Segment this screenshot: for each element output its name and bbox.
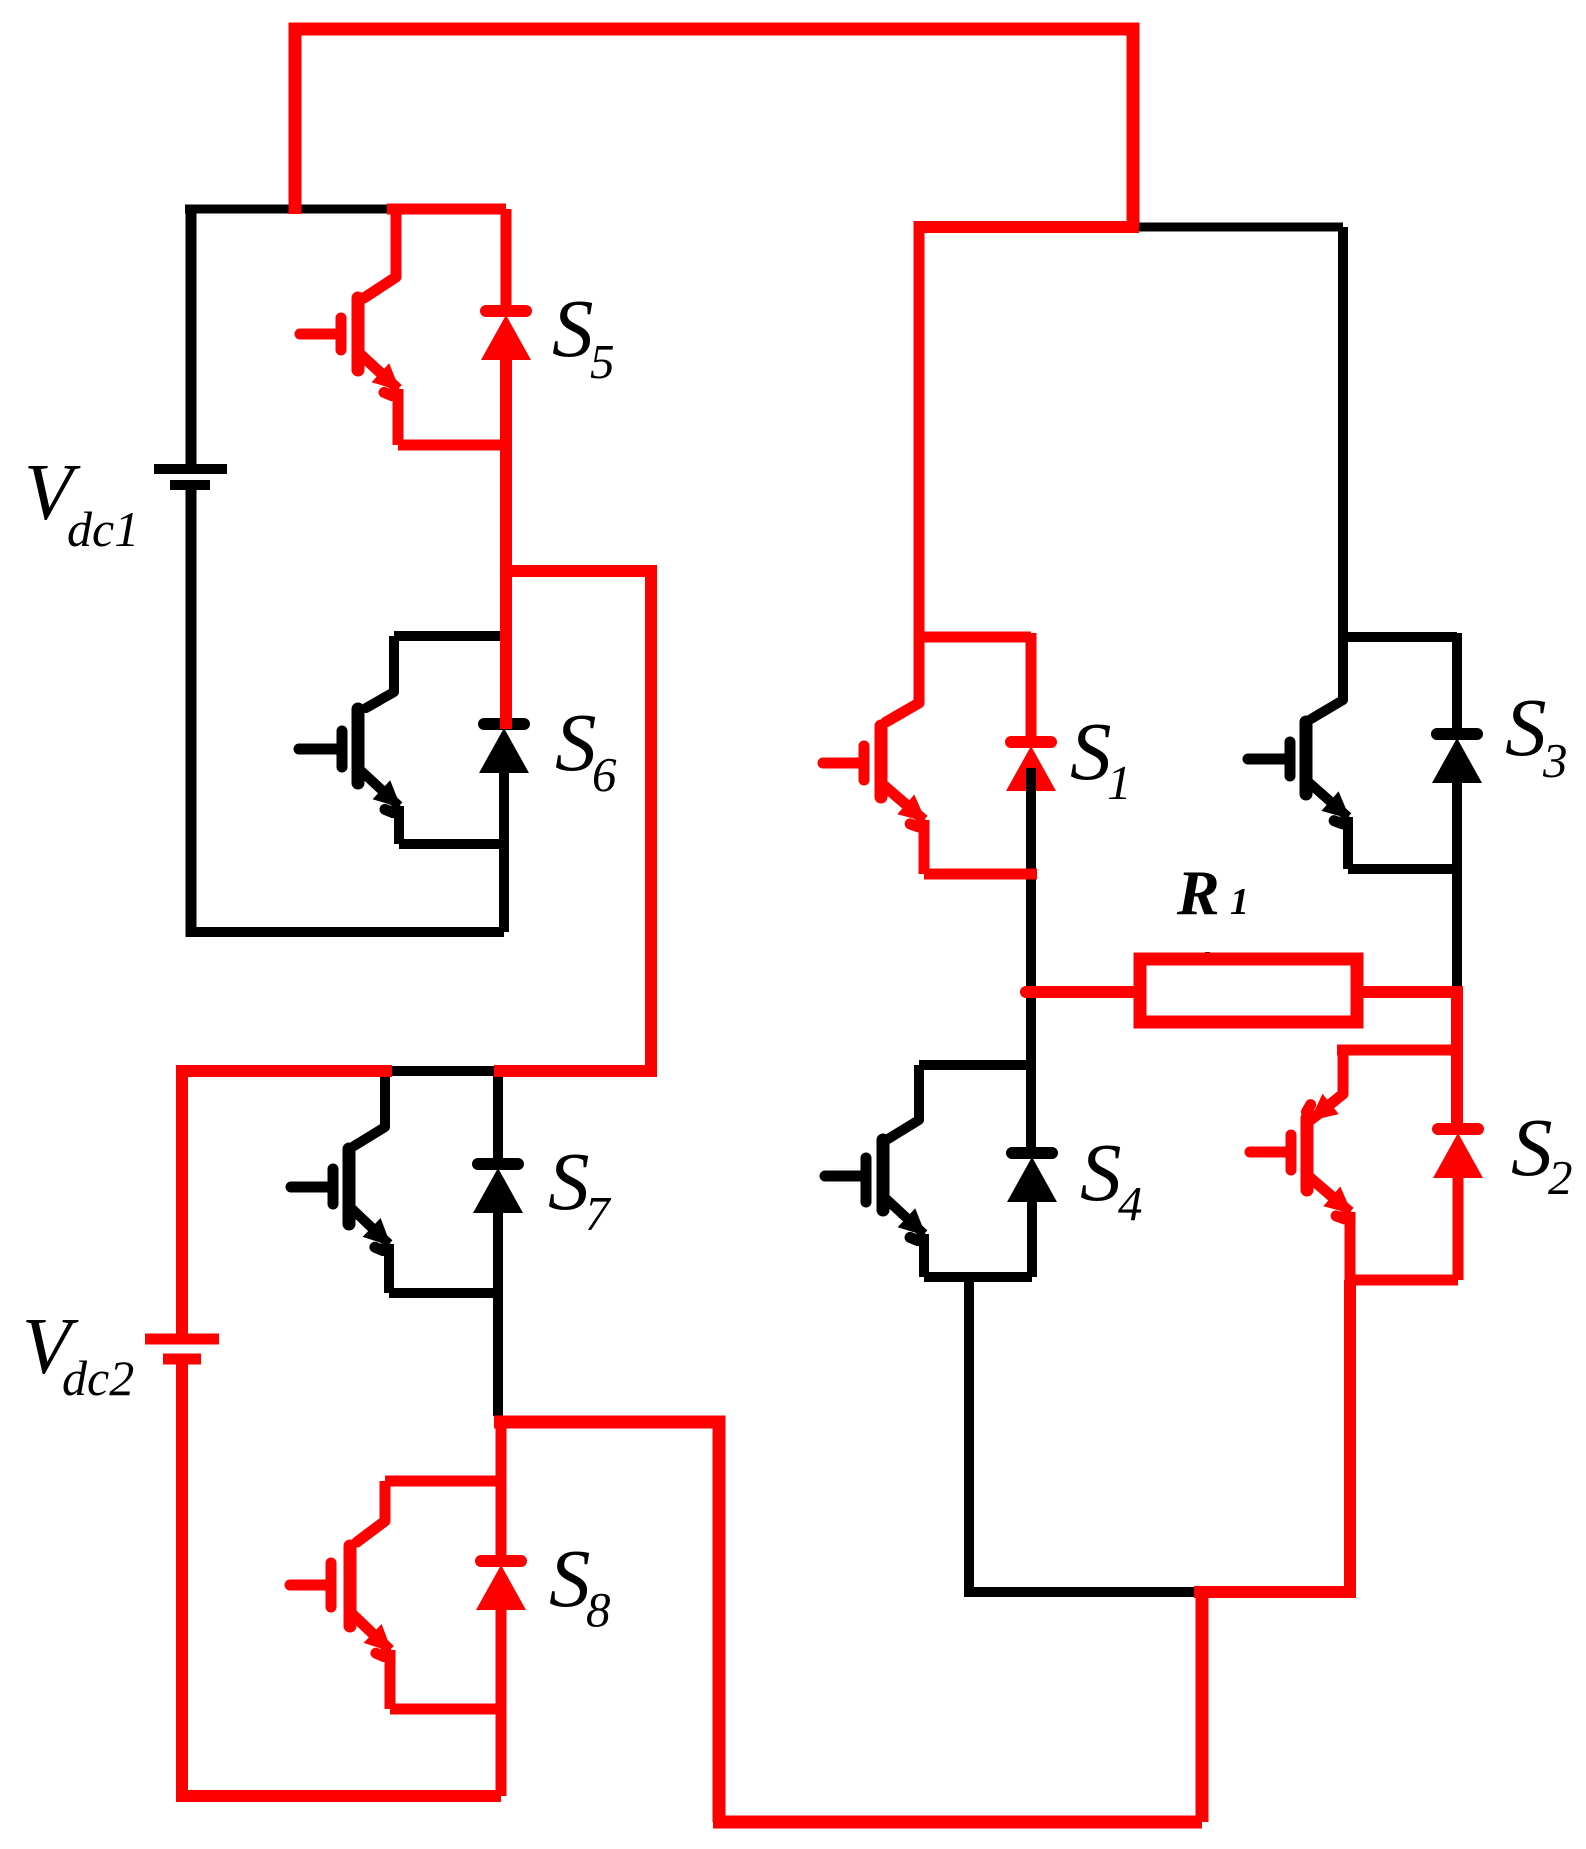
svg-text:1: 1 — [1107, 755, 1132, 810]
diode of S8 (anti-parallel) — [476, 1422, 526, 1796]
wire: R1 right node down to S2 (red) — [1451, 986, 1463, 1130]
wire: S5 emitter bottom link — [398, 440, 506, 451]
wire: lower-left cell top rail (red) and Vdc2 + rail — [176, 1071, 651, 1334]
diode of S7 (anti-parallel) — [473, 1071, 523, 1416]
svg-text:1: 1 — [1230, 881, 1249, 923]
svg-text:7: 7 — [585, 1186, 612, 1241]
svg-text:2: 2 — [1548, 1150, 1573, 1205]
wire: S3 emitter bottom link — [1348, 864, 1457, 874]
wire: Vdc2 - down to bottom rail of lower-left cell — [176, 1364, 501, 1796]
wire: S7 emitter bottom link — [389, 1288, 498, 1298]
svg-text:3: 3 — [1542, 733, 1568, 788]
wire: left cell bottom rail (Vdc1- to S6 emitter/diode) — [186, 844, 504, 932]
wire: S3/diode down to R1 right node (black) — [1452, 783, 1462, 992]
wire: S4 output down to right-bridge bottom rail (black) — [964, 1277, 1194, 1592]
battery Vdc2 — [145, 1339, 219, 1359]
svg-text:6: 6 — [592, 747, 617, 802]
svg-text:4: 4 — [1118, 1176, 1143, 1231]
diode of S1 (anti-parallel) — [1006, 633, 1056, 791]
svg-text:dc2: dc2 — [62, 1350, 134, 1406]
wire: right-bridge bottom rail red segment and S2 output — [1194, 1280, 1350, 1598]
wire: node between S1 and S4 (black vertical) — [1026, 768, 1036, 1153]
diode of S3 (anti-parallel) — [1432, 633, 1482, 783]
diode of S4 (anti-parallel) — [1007, 1153, 1057, 1277]
battery Vdc1 — [154, 469, 227, 485]
svg-text:8: 8 — [586, 1582, 611, 1637]
wire: S6 emitter bottom link — [399, 839, 504, 849]
svg-text:S: S — [1511, 1101, 1553, 1193]
transistor S2 (IGBT, red) — [1250, 1050, 1457, 1280]
transistor S4 (IGBT, black) — [825, 1065, 1031, 1277]
svg-text:S: S — [548, 1135, 590, 1227]
wire: right cell top rail red segment (to S1) — [914, 221, 1139, 233]
wire: S5/S6 midpoint node down to S6 and out to the right — [506, 360, 651, 1077]
svg-text:S: S — [1080, 1126, 1122, 1218]
small tick mark above R1 — [1205, 952, 1210, 961]
wire: top red loop from left cell + to right cell + rail — [295, 29, 1133, 227]
svg-text:S: S — [555, 696, 597, 788]
transistor S6 (IGBT, black) — [299, 636, 506, 844]
transistor S5 (IGBT, red) — [300, 209, 506, 445]
transistor S7 (IGBT, black) — [291, 1071, 498, 1293]
svg-text:S: S — [549, 1532, 591, 1624]
svg-text:R: R — [1176, 857, 1220, 928]
wire: left cell left rail from top rail down to Vdc1 + — [186, 205, 197, 465]
svg-text:S: S — [552, 282, 594, 374]
diode of S5 (anti-parallel) — [481, 209, 531, 360]
transistor S1 (IGBT, red) — [823, 221, 1031, 874]
svg-text:dc1: dc1 — [67, 501, 139, 557]
wire: S1 emitter bottom link — [924, 869, 1037, 880]
wire: right cell top rail black segment (to S3) — [1133, 223, 1343, 232]
wire: S4 emitter bottom link — [924, 1272, 1032, 1282]
wire: S2 emitter bottom link — [1350, 1275, 1458, 1286]
wire: left cell top rail (Vdc1+ to S5) — [185, 205, 391, 214]
transistor S8 (IGBT, red) — [290, 1481, 501, 1709]
wire: S8 emitter bottom link — [390, 1704, 501, 1715]
diode of S2 (anti-parallel) — [1433, 1129, 1483, 1280]
svg-text:5: 5 — [590, 334, 615, 389]
wire: S7/S8 midpoint out to bottom output wire (red) — [494, 1422, 1202, 1822]
svg-text:S: S — [1505, 681, 1547, 773]
diode of S6 (anti-parallel) — [479, 724, 529, 932]
resistor R1 (load) — [1026, 959, 1462, 1022]
wire: Vdc1 - down left rail to bottom rail — [186, 489, 197, 937]
svg-text:S: S — [1070, 705, 1112, 797]
transistor S3 (IGBT, black) — [1248, 227, 1457, 869]
